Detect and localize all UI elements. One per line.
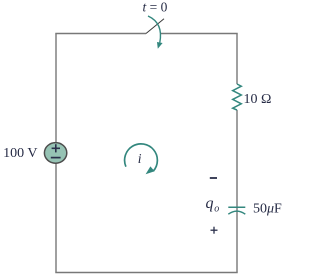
- label 50uF: [253, 202, 282, 217]
- label 10 ohm: [244, 92, 272, 107]
- capacitor C (50 uF): [228, 207, 245, 214]
- svg-text:q: q: [206, 195, 214, 212]
- capacitor minus sign: [210, 177, 217, 179]
- svg-text:50μF: 50μF: [253, 202, 282, 217]
- svg-text:t = 0: t = 0: [143, 0, 168, 15]
- label t = 0: [143, 0, 168, 15]
- wire top right (switch to corner): [160, 33, 238, 35]
- svg-text:100 V: 100 V: [3, 146, 37, 161]
- wire right upper (corner to resistor): [236, 34, 238, 85]
- label 100 V: [3, 146, 37, 161]
- wire top left (to switch): [55, 33, 146, 35]
- switch closing arrow (teal arc): [148, 16, 163, 49]
- svg-text:i: i: [138, 151, 142, 166]
- capacitor plus sign: [211, 227, 218, 234]
- switch blade: [146, 19, 164, 34]
- voltage source V1 (100 V): [44, 143, 66, 164]
- wire bottom: [55, 272, 237, 274]
- svg-text:10 Ω: 10 Ω: [244, 92, 272, 107]
- svg-text:o: o: [214, 203, 219, 214]
- label qo: [206, 195, 220, 214]
- wire left side: [55, 34, 57, 273]
- loop current arrow i: [125, 144, 158, 174]
- resistor R (10 ohm) zigzag: [233, 84, 242, 110]
- label i: [138, 151, 142, 166]
- wire right lower (resistor to bottom corner, through capacitor): [236, 110, 238, 273]
